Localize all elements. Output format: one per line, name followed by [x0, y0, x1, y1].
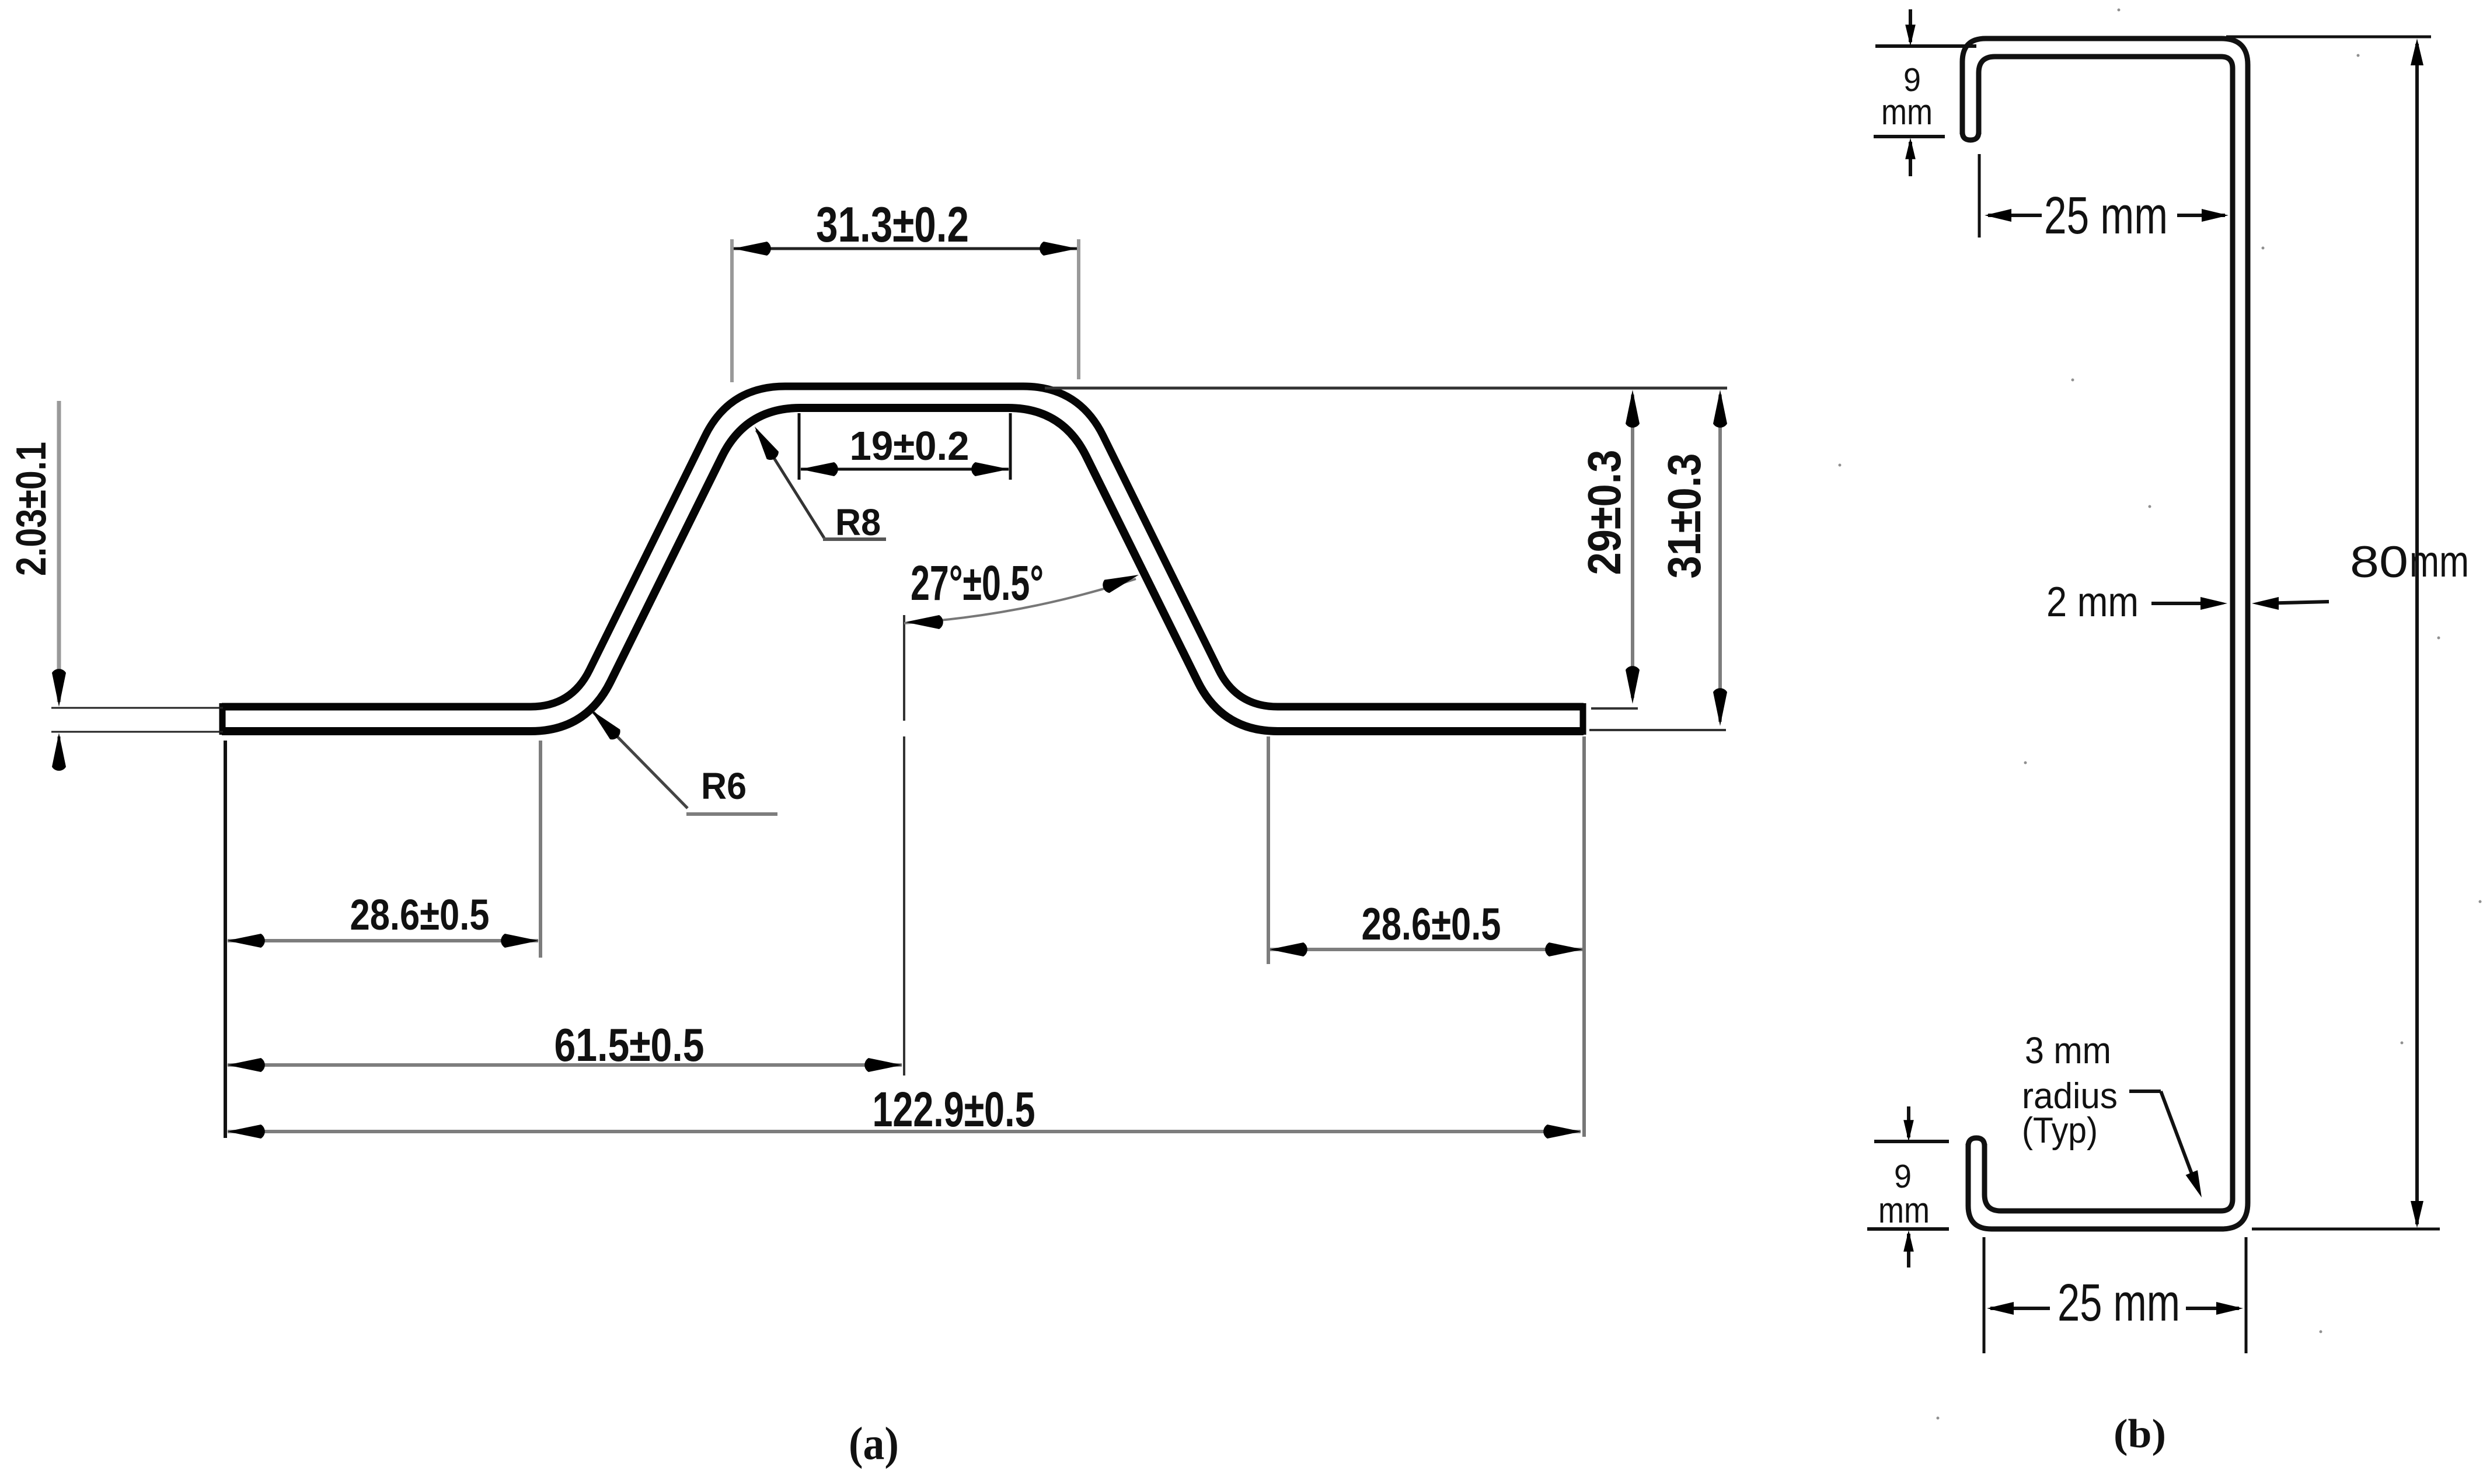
scan speckles (noise dots) — [1839, 9, 2482, 1420]
dimension 122.9±0.5 (overall width) — [228, 1130, 1581, 1133]
svg-text:28.6±0.5: 28.6±0.5 — [350, 891, 490, 939]
thin extension tails of sheet surfaces to the left (for 2.03 dim) — [51, 707, 223, 709]
left vertical extension line (flange end) — [224, 741, 227, 1138]
svg-text:19±0.2: 19±0.2 — [850, 423, 970, 469]
80 mm dimension — [2415, 44, 2419, 1224]
svg-text:mm: mm — [1878, 1190, 1930, 1231]
svg-text:61.5±0.5: 61.5±0.5 — [555, 1019, 705, 1071]
25 mm bottom dimension — [1983, 1237, 1986, 1353]
top-surface extension line to right dimensions — [1045, 387, 1727, 390]
svg-text:25 mm: 25 mm — [2044, 187, 2168, 245]
svg-text:29±0.3: 29±0.3 — [1578, 450, 1630, 575]
bottom lip end cap — [1968, 1138, 1985, 1146]
hat-channel profile inner contour (bottom surface) — [222, 408, 1584, 731]
svg-text:(b): (b) — [2114, 1412, 2166, 1457]
9 mm top: ticks and arrows — [1875, 44, 1976, 48]
svg-text:31±0.3: 31±0.3 — [1658, 453, 1710, 579]
dimension 31.3±0.2 (top outer width) — [730, 239, 734, 382]
dimension 29±0.3 (height to flange top) — [1631, 394, 1634, 698]
vertical dashed centre line of hat — [903, 615, 905, 721]
svg-text:2 mm: 2 mm — [2046, 579, 2139, 626]
dimension 28.6±0.5 left flange — [228, 939, 538, 942]
svg-text:mm: mm — [1881, 92, 1933, 132]
dimension 31±0.3 (total height) — [1718, 394, 1722, 722]
svg-text:3 mm: 3 mm — [2025, 1029, 2111, 1071]
hat-channel profile outer contour (top surface) — [222, 386, 1584, 707]
svg-text:122.9±0.5: 122.9±0.5 — [873, 1082, 1035, 1137]
svg-text:R6: R6 — [701, 765, 747, 807]
top lip end cap — [1962, 132, 1979, 140]
svg-text:27°±0.5°: 27°±0.5° — [911, 556, 1044, 610]
svg-text:R8: R8 — [835, 501, 881, 543]
leader and label R6 (bottom corner radius) — [593, 712, 688, 808]
right vertical extension line (flange end) — [1582, 736, 1586, 1137]
25 mm top dimension — [1978, 154, 1981, 238]
dimension 2.03±0.1 (sheet thickness) — [57, 401, 61, 702]
leader and label R8 (top corner radius) — [756, 430, 824, 538]
right sheet end cap — [1580, 703, 1586, 735]
9 mm bottom: ticks and arrows — [1874, 1140, 1949, 1143]
extension line left flange tangent — [539, 741, 542, 958]
svg-text:9: 9 — [1894, 1158, 1912, 1195]
svg-text:28.6±0.5: 28.6±0.5 — [1362, 898, 1501, 949]
svg-text:2.03±0.1: 2.03±0.1 — [8, 442, 55, 576]
dimension 61.5±0.5 (to centreline) — [228, 1063, 902, 1067]
svg-text:(Typ): (Typ) — [2022, 1111, 2098, 1151]
extension line right flange tangent — [1267, 736, 1270, 964]
Z-section profile outline (b) — [1962, 39, 2248, 1229]
short extension lines at right flange — [1591, 707, 1638, 710]
left sheet end cap — [219, 703, 226, 735]
angle dimension 27°±0.5° arc with arrows — [904, 579, 1136, 623]
svg-text:mm: mm — [2409, 537, 2469, 586]
svg-text:25 mm: 25 mm — [2057, 1274, 2180, 1332]
svg-text:31.3±0.2: 31.3±0.2 — [816, 197, 969, 253]
dimension 28.6±0.5 right flange — [1270, 948, 1582, 951]
dimension 19±0.2 (top inner width) — [798, 413, 801, 480]
svg-text:(a): (a) — [849, 1419, 899, 1469]
svg-text:80: 80 — [2350, 537, 2408, 587]
